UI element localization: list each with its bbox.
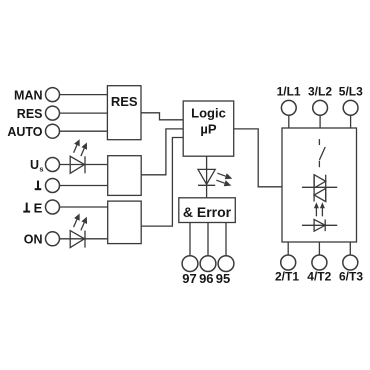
wire MAN to RES block xyxy=(60,94,108,96)
LED D3 (status indicator) xyxy=(198,169,232,186)
wire Error to terminal 95 xyxy=(225,223,227,256)
switch contact S1 xyxy=(319,139,325,167)
ground symbol label xyxy=(35,181,42,190)
wire GND to input block xyxy=(60,185,108,187)
wire power block to 4/T2 xyxy=(318,242,320,255)
terminal 2/T1 xyxy=(281,255,296,270)
svg-text:97: 97 xyxy=(182,271,196,286)
svg-text:µP: µP xyxy=(200,122,216,137)
svg-text:RES: RES xyxy=(17,107,43,121)
wire 3/L2 to power block xyxy=(319,115,321,128)
wire ON to error block xyxy=(60,238,108,240)
power block (solid-state switching module) xyxy=(282,128,357,242)
terminal 95 xyxy=(218,256,234,272)
wire GND E to error block xyxy=(60,206,108,208)
svg-text:ON: ON xyxy=(24,233,43,247)
wire Error to terminal 97 xyxy=(189,223,191,256)
wire input block to Logic xyxy=(141,129,183,175)
svg-text:1/L1: 1/L1 xyxy=(277,84,301,98)
terminal AUTO xyxy=(46,124,60,138)
svg-text:s: s xyxy=(39,164,43,173)
wire lower block to Logic xyxy=(141,138,183,227)
wire 1/L1 to power block xyxy=(288,115,290,128)
svg-text:E: E xyxy=(34,201,43,216)
wire RES block to Logic xyxy=(141,113,183,120)
LED D4 (optocoupler emitter) xyxy=(302,219,337,231)
terminal 1/L1 xyxy=(281,100,296,115)
svg-text:3/L2: 3/L2 xyxy=(308,84,332,98)
svg-text:AUTO: AUTO xyxy=(7,125,42,139)
svg-text:MAN: MAN xyxy=(14,88,42,102)
terminal 97 xyxy=(182,256,198,272)
LED D1 (Us indicator) xyxy=(70,139,87,173)
optocoupler light arrows xyxy=(314,202,325,216)
svg-text:& Error: & Error xyxy=(183,204,232,220)
terminal 5/L3 xyxy=(343,100,358,115)
wire Error to terminal 96 xyxy=(207,223,209,256)
block input (Us/GND) xyxy=(108,156,142,196)
svg-text:96: 96 xyxy=(199,271,213,286)
wire Us to input block xyxy=(60,164,108,166)
ground E symbol label xyxy=(23,201,42,216)
wire 5/L3 to power block xyxy=(350,115,352,128)
svg-text:U: U xyxy=(30,158,39,172)
svg-text:RES: RES xyxy=(111,94,138,109)
terminal MAN xyxy=(46,88,60,102)
block & Error xyxy=(179,198,236,223)
svg-text:4/T2: 4/T2 xyxy=(307,270,331,284)
terminal 96 xyxy=(200,256,216,272)
wire power block to 2/T1 xyxy=(287,242,289,255)
terminal 6/T3 xyxy=(343,255,358,270)
terminal Us xyxy=(46,158,60,172)
terminal RES xyxy=(46,106,60,120)
wire Logic to Error block xyxy=(206,156,208,197)
terminal GND xyxy=(46,179,60,193)
svg-text:95: 95 xyxy=(216,271,230,286)
svg-text:Logic: Logic xyxy=(191,105,226,120)
wire power block to 6/T3 xyxy=(349,242,351,255)
svg-text:2/T1: 2/T1 xyxy=(275,270,299,284)
svg-text:6/T3: 6/T3 xyxy=(339,270,363,284)
svg-text:5/L3: 5/L3 xyxy=(339,84,363,98)
block Logic uP U1 xyxy=(183,101,234,156)
terminal 3/L2 xyxy=(313,100,328,115)
block lower input (GND E/ON) xyxy=(108,201,142,244)
LED D2 (ON indicator) xyxy=(70,214,87,248)
triac V1 xyxy=(302,175,337,202)
terminal ON xyxy=(46,232,60,246)
block RES xyxy=(107,86,141,140)
label Us xyxy=(30,158,44,173)
terminal 4/T2 xyxy=(312,255,327,270)
wire Logic to power block xyxy=(234,129,282,187)
terminal GND E xyxy=(46,200,60,214)
wire RES to RES block xyxy=(60,112,108,114)
wire AUTO to RES block xyxy=(60,130,108,132)
